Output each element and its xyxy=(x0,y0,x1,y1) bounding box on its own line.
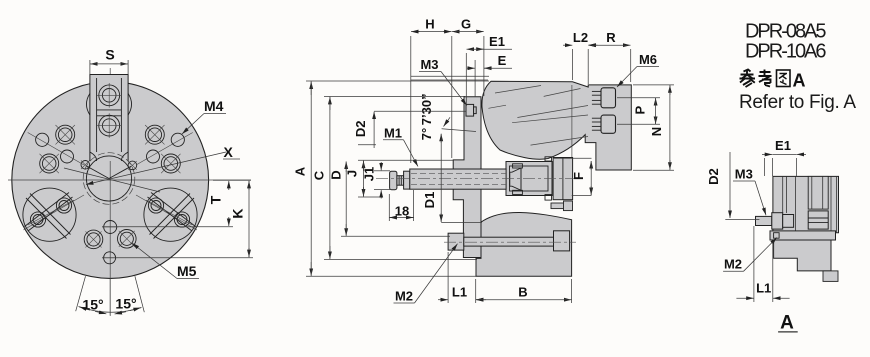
crossed screw mid-left xyxy=(40,154,59,173)
label X + leader xyxy=(64,144,240,192)
jaw pinion circle left xyxy=(23,188,76,241)
svg-text:S: S xyxy=(105,47,114,63)
svg-text:A: A xyxy=(793,70,806,90)
slot screw 2 xyxy=(97,113,121,138)
view label A xyxy=(778,313,798,334)
svg-text:M6: M6 xyxy=(639,52,657,67)
hole inner left xyxy=(61,150,74,163)
svg-text:D2: D2 xyxy=(353,120,368,137)
svg-text:P: P xyxy=(633,106,648,115)
svg-text:G: G xyxy=(461,17,471,32)
nut corner key bottom-right xyxy=(545,195,552,201)
detail lower mass xyxy=(774,240,831,271)
dimension D1 xyxy=(422,134,482,223)
detail foot xyxy=(823,271,838,282)
chuck body circle xyxy=(12,82,209,279)
radial centerline 150deg xyxy=(28,133,84,166)
svg-text:J1: J1 xyxy=(362,167,377,181)
jaw set screw xyxy=(551,201,573,211)
rod end cap xyxy=(390,171,397,190)
label M3 + leader xyxy=(419,57,467,106)
label M3 (detail) + leader xyxy=(733,167,766,216)
back plate with hub boss xyxy=(453,97,481,258)
dimension F xyxy=(553,158,592,195)
svg-text:M1: M1 xyxy=(384,126,402,141)
svg-text:D1: D1 xyxy=(422,192,437,209)
label M5 + leader xyxy=(132,243,199,279)
radial centerline 210deg xyxy=(23,195,84,230)
dimension L1 (detail) xyxy=(736,226,789,302)
dimension B xyxy=(476,279,572,303)
bottom screw left M5 xyxy=(84,230,103,249)
T-nut M6 upper xyxy=(592,88,616,108)
crossed screw upper-right xyxy=(145,125,164,144)
svg-text:7° 7’30”: 7° 7’30” xyxy=(419,93,434,140)
svg-text:18: 18 xyxy=(395,204,409,219)
nut corner key top-right xyxy=(545,157,552,161)
svg-text:15°: 15° xyxy=(115,296,136,312)
svg-text:T: T xyxy=(208,195,224,204)
svg-text:L2: L2 xyxy=(573,30,588,45)
body main mass with jaw arm and top jaw block xyxy=(482,81,631,170)
jaw interface line xyxy=(571,85,573,157)
pin hole left xyxy=(81,161,90,170)
detail A: main block xyxy=(773,176,839,232)
dimension L1 xyxy=(438,252,486,303)
title chinese 参考图A drawn as strokes xyxy=(740,70,791,88)
nut corner key bottom-left xyxy=(513,190,523,194)
horizontal centerline xyxy=(8,179,251,181)
dimension G xyxy=(452,17,484,97)
crossed screw mid-right xyxy=(161,154,180,173)
radial centerline 330deg xyxy=(136,195,197,230)
detail M2 notch xyxy=(774,233,780,239)
dimension E1 (detail) xyxy=(762,138,806,176)
svg-text:M5: M5 xyxy=(177,263,197,279)
bottom small hole upper xyxy=(102,221,118,234)
svg-text:Refer to Fig. A: Refer to Fig. A xyxy=(739,92,856,113)
bottom small hole lower xyxy=(102,252,117,264)
rod flange ring xyxy=(404,171,410,189)
svg-text:M2: M2 xyxy=(395,289,413,304)
detail block section lines xyxy=(783,176,837,232)
drawbar M1 rod xyxy=(376,169,585,190)
svg-text:M3: M3 xyxy=(735,167,753,182)
svg-text:D: D xyxy=(329,170,344,179)
crossed screw upper-left xyxy=(56,125,75,144)
bolt hole M4 right (M4 target) xyxy=(171,133,184,146)
svg-text:A: A xyxy=(780,313,794,334)
char 参 xyxy=(740,70,756,88)
dimension J1 xyxy=(362,162,391,199)
svg-text:L1: L1 xyxy=(756,280,771,295)
detail center nut xyxy=(808,211,828,229)
slot screw 1 xyxy=(97,83,121,108)
dimension D xyxy=(329,162,451,237)
char 图 xyxy=(777,70,791,87)
detail inner sub block xyxy=(808,176,828,209)
top edge reference lines xyxy=(411,75,489,77)
dimension S xyxy=(90,47,128,75)
dimension R xyxy=(588,30,630,82)
label M2 (detail) + leader xyxy=(723,238,777,272)
svg-text:N: N xyxy=(649,127,664,136)
15 deg angle lines xyxy=(76,276,145,315)
detail M2 band xyxy=(770,231,836,240)
rod nose cone xyxy=(510,168,521,190)
threaded shank xyxy=(410,169,506,189)
svg-text:15°: 15° xyxy=(82,297,103,313)
svg-text:D2: D2 xyxy=(706,168,721,185)
svg-text:F: F xyxy=(571,172,586,180)
radial centerline 30deg xyxy=(136,133,193,166)
svg-text:E: E xyxy=(498,53,507,68)
svg-text:DPR-08A5: DPR-08A5 xyxy=(745,21,827,43)
svg-text:A: A xyxy=(293,166,308,176)
dimension A xyxy=(293,81,490,276)
svg-text:L1: L1 xyxy=(452,285,467,300)
svg-text:M2: M2 xyxy=(724,257,742,272)
label M2 + leader xyxy=(394,244,458,304)
hole inner right xyxy=(147,150,160,163)
jaw arm serration lines xyxy=(488,86,588,146)
svg-text:M3: M3 xyxy=(420,57,438,72)
dimension K xyxy=(102,181,253,258)
svg-text:H: H xyxy=(425,17,434,32)
label M4 + leader xyxy=(182,98,226,134)
svg-text:K: K xyxy=(230,208,246,218)
vertical centerline xyxy=(109,68,111,316)
svg-text:C: C xyxy=(312,170,327,180)
nut corner key top-left xyxy=(513,164,523,168)
dimension E1 top xyxy=(466,34,512,104)
dimension D2 (vertical, arrow up) xyxy=(353,111,466,148)
dimension P xyxy=(617,98,660,124)
svg-text:B: B xyxy=(518,285,527,300)
dimension L2 xyxy=(563,30,598,84)
dimension J xyxy=(345,160,454,197)
bolt hole M4 left xyxy=(36,133,49,146)
center line xyxy=(376,177,585,179)
rod neck xyxy=(397,176,404,186)
svg-text:M4: M4 xyxy=(204,98,224,114)
M2 bolt bottom xyxy=(444,231,576,251)
dimension C xyxy=(312,96,478,259)
dimension N xyxy=(633,85,674,170)
svg-text:R: R xyxy=(606,30,616,45)
M3 mounting screw head xyxy=(466,104,476,116)
svg-text:DPR-10A6: DPR-10A6 xyxy=(745,41,827,63)
dimension 18 xyxy=(389,190,413,221)
T-nut M6 lower xyxy=(592,115,616,133)
char 考 xyxy=(759,70,772,87)
svg-text:E1: E1 xyxy=(489,34,505,49)
label M1 + leader xyxy=(383,126,418,167)
dimension H xyxy=(411,17,452,164)
lower body mass xyxy=(476,212,572,276)
detail M3 screw xyxy=(756,213,794,229)
guide wall column xyxy=(553,158,573,200)
center bore xyxy=(83,153,135,205)
draw nut block xyxy=(506,157,552,200)
label M6 + leader xyxy=(617,52,659,87)
svg-text:E1: E1 xyxy=(775,138,791,153)
bottom screw right M5 xyxy=(118,230,137,249)
dim 7deg 7'30" + leader xyxy=(419,93,476,140)
jaw pinion circle right xyxy=(144,188,197,241)
top jaw guide slot xyxy=(86,75,131,162)
svg-text:J: J xyxy=(345,170,360,177)
dimension E top xyxy=(467,53,512,97)
pin hole right xyxy=(128,161,137,170)
dimension T xyxy=(102,180,251,227)
dimension D2 (detail) xyxy=(706,152,759,219)
